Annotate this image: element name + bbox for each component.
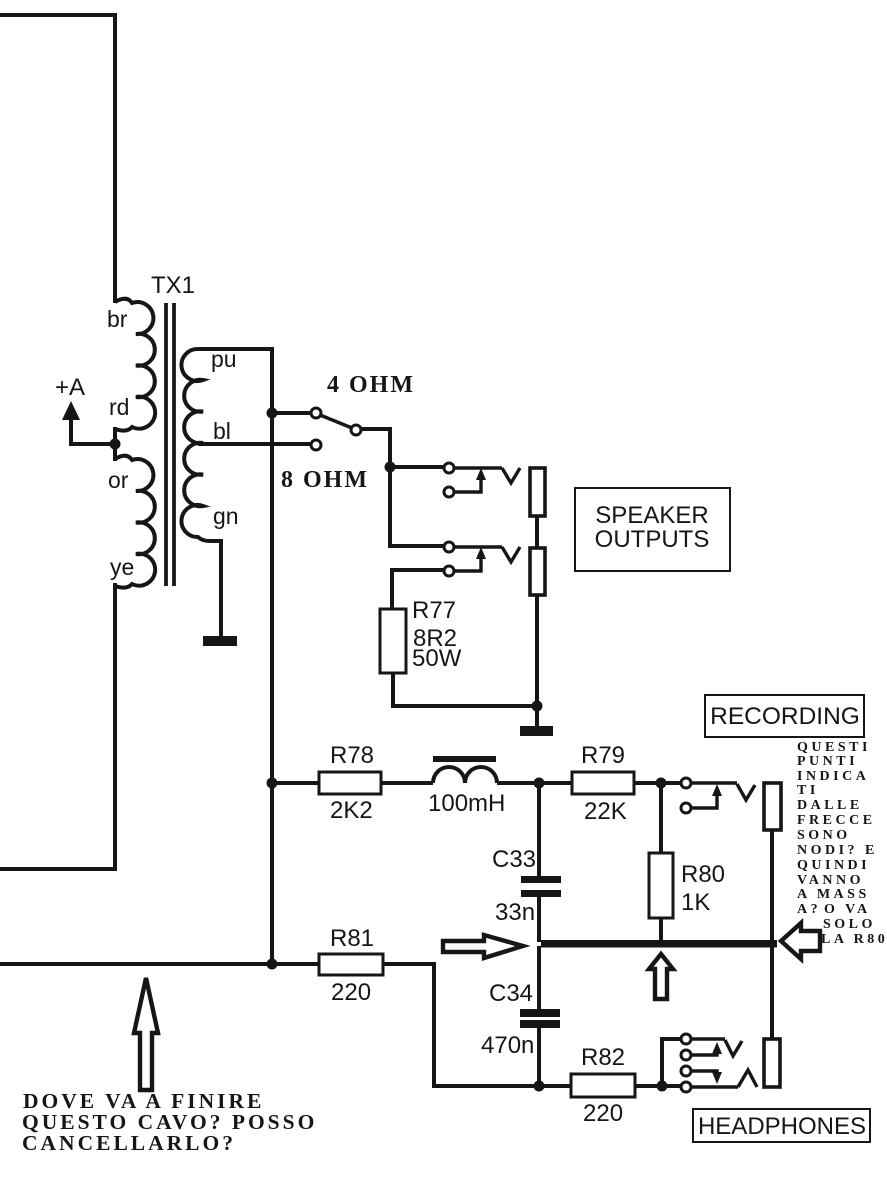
node centre tap bbox=[110, 439, 121, 450]
svg-text:C33: C33 bbox=[492, 846, 536, 873]
svg-text:gn: gn bbox=[213, 503, 239, 529]
svg-text:50W: 50W bbox=[412, 645, 462, 672]
svg-text:PUNTI: PUNTI bbox=[797, 754, 858, 769]
svg-text:CANCELLARLO?: CANCELLARLO? bbox=[22, 1131, 236, 1155]
jack J2 body bbox=[530, 548, 545, 595]
headphone contact1 spring V bbox=[725, 1040, 742, 1056]
capacitor C33 plate1 bbox=[521, 876, 561, 883]
wire to jack1 tip bbox=[390, 465, 444, 469]
wire C33 branch upper bbox=[537, 783, 541, 876]
recording jack tip contact bbox=[681, 778, 691, 788]
svg-text:TX1: TX1 bbox=[151, 272, 195, 299]
svg-text:br: br bbox=[107, 306, 128, 332]
wire recording tip bbox=[691, 781, 737, 784]
headphone contact2 arrowhead bbox=[712, 1042, 722, 1054]
svg-text:C34: C34 bbox=[489, 980, 533, 1007]
headphone jack contact 2 bbox=[681, 1050, 691, 1060]
jack J1 NC arrowhead bbox=[476, 468, 486, 480]
svg-text:bl: bl bbox=[213, 418, 231, 444]
wire top-left L from off-page to transformer primary top bbox=[0, 15, 115, 303]
wire R77 bottom to ground node bbox=[393, 673, 537, 706]
wire headphone contact4 bbox=[691, 1085, 738, 1088]
resistor R81 bbox=[319, 954, 383, 975]
svg-text:22K: 22K bbox=[584, 798, 627, 825]
svg-text:rd: rd bbox=[109, 394, 129, 420]
node R81 tap bbox=[267, 959, 278, 970]
capacitor C34 plate2 bbox=[520, 1020, 560, 1028]
thick node bus bar bbox=[541, 940, 777, 948]
jack J2 tip spring V bbox=[502, 547, 520, 562]
wire C34 branch from bus bar bbox=[537, 946, 541, 1009]
svg-text:470n: 470n bbox=[481, 1032, 534, 1059]
svg-text:FRECCE: FRECCE bbox=[797, 813, 876, 828]
ground transformer bbox=[203, 636, 237, 646]
svg-text:LA R80: LA R80 bbox=[821, 932, 887, 947]
wire long R81 feed from off-page left bbox=[0, 962, 319, 966]
arrow pointing up at R81 wire bbox=[134, 978, 158, 1090]
node C33 tap bbox=[534, 778, 545, 789]
switch contact 8 ohm bbox=[311, 440, 321, 450]
svg-text:A MASS: A MASS bbox=[797, 887, 870, 902]
headphone jack contact 1 bbox=[681, 1034, 691, 1044]
svg-text:ye: ye bbox=[110, 554, 134, 580]
recording NC arrowhead bbox=[712, 784, 722, 796]
wire C34 to bottom rail bbox=[537, 1028, 541, 1086]
resistor R82 bbox=[571, 1074, 635, 1097]
wire primary centre-tap segment bbox=[113, 427, 117, 461]
svg-text:+A: +A bbox=[55, 374, 85, 401]
wire recording jack to headphones jack bbox=[770, 830, 774, 1039]
svg-text:R78: R78 bbox=[330, 742, 374, 769]
svg-text:SPEAKER: SPEAKER bbox=[595, 502, 708, 529]
svg-text:33n: 33n bbox=[495, 899, 535, 926]
jack J1 tip contact bbox=[444, 463, 454, 473]
headphone jack contact 4 bbox=[681, 1082, 691, 1092]
svg-text:HEADPHONES: HEADPHONES bbox=[698, 1113, 866, 1140]
wire primary bottom lead to off-page left bbox=[0, 583, 115, 869]
svg-text:100mH: 100mH bbox=[428, 790, 505, 817]
wire R78 to L1 bbox=[381, 781, 433, 785]
capacitor C34 plate1 bbox=[520, 1009, 560, 1017]
svg-text:R81: R81 bbox=[330, 925, 374, 952]
wire between jack bodies bbox=[535, 516, 539, 548]
node R80 tap bbox=[656, 778, 667, 789]
svg-text:R82: R82 bbox=[581, 1044, 625, 1071]
switch contact 4 ohm bbox=[311, 408, 321, 418]
box SPEAKER OUTPUTS bbox=[575, 488, 730, 571]
svg-text:SONO: SONO bbox=[797, 828, 851, 843]
svg-text:DALLE: DALLE bbox=[797, 798, 863, 813]
node speaker ground bbox=[532, 701, 543, 712]
wire R81 to bottom rail bbox=[383, 964, 539, 1086]
node speaker jack1 tap bbox=[385, 462, 396, 473]
transformer T1 primary upper winding (br-rd) bbox=[115, 299, 155, 431]
jack J2 NC arrowhead bbox=[476, 547, 486, 559]
wire R79 to recording jack bbox=[634, 781, 681, 785]
box RECORDING bbox=[705, 695, 864, 737]
wire jack bodies to ground bbox=[535, 595, 539, 727]
node R78 tap bbox=[267, 778, 278, 789]
wire recording NC bbox=[691, 789, 717, 808]
wire jack J1 NC bbox=[454, 473, 481, 492]
transformer secondary winding (pu-bl-gn) bbox=[181, 349, 268, 637]
svg-text:2K2: 2K2 bbox=[330, 797, 373, 824]
switch common contact bbox=[351, 425, 361, 435]
svg-text:1K: 1K bbox=[681, 889, 710, 916]
svg-text:QUESTI: QUESTI bbox=[797, 740, 871, 755]
svg-text:4 OHM: 4 OHM bbox=[327, 372, 415, 398]
svg-text:R80: R80 bbox=[681, 861, 725, 888]
svg-text:TI: TI bbox=[797, 783, 819, 798]
node 4-ohm tap bbox=[267, 408, 278, 419]
node C34 bottom bbox=[534, 1081, 545, 1092]
jack J1 body bbox=[530, 468, 545, 516]
jack J1 tip spring V bbox=[502, 468, 520, 483]
svg-text:SOLO: SOLO bbox=[823, 917, 876, 932]
wire L1 to R79 bbox=[497, 781, 572, 785]
wire jack J1 tip bbox=[454, 466, 502, 469]
box HEADPHONES bbox=[693, 1109, 870, 1142]
svg-text:or: or bbox=[108, 467, 129, 493]
svg-text:INDICA: INDICA bbox=[797, 769, 869, 784]
node headphone tap bbox=[657, 1081, 668, 1092]
svg-text:R79: R79 bbox=[581, 742, 625, 769]
switch lever bbox=[320, 415, 352, 428]
jack J2 tip contact bbox=[444, 542, 454, 552]
headphone jack body bbox=[764, 1039, 780, 1087]
resistor R77 bbox=[380, 609, 406, 673]
wire R80 branch upper bbox=[659, 783, 663, 853]
wire bl lead bbox=[198, 442, 311, 446]
arrow pointing up at bus bar bbox=[649, 954, 673, 999]
svg-text:R77: R77 bbox=[412, 597, 456, 624]
svg-text:220: 220 bbox=[331, 979, 371, 1006]
svg-text:8 OHM: 8 OHM bbox=[281, 467, 369, 493]
wire pu lead down right side bus bbox=[198, 349, 272, 965]
+A arrow bbox=[62, 401, 80, 420]
transformer T1 primary lower winding (or-ye) bbox=[115, 456, 155, 588]
headphone contact3 arrowhead bbox=[712, 1072, 722, 1084]
arrow pointing right at bus bar bbox=[443, 935, 523, 958]
wire bus to R78 bbox=[272, 781, 319, 785]
jack J1 NC contact bbox=[444, 487, 454, 497]
wire headphone contact3 bbox=[691, 1071, 717, 1078]
headphone contact4 spring bbox=[738, 1070, 757, 1087]
recording tip spring V bbox=[737, 784, 755, 800]
wire headphone contact1 bbox=[691, 1037, 725, 1040]
svg-text:A?: A? bbox=[797, 902, 821, 917]
headphone jack contact 3 bbox=[681, 1066, 691, 1076]
ground speaker bbox=[520, 726, 553, 736]
recording jack NC contact bbox=[681, 803, 691, 813]
wire R80 to bus bar bbox=[659, 918, 663, 942]
transformer core bbox=[164, 303, 168, 586]
svg-text:QUINDI: QUINDI bbox=[797, 858, 870, 873]
wire headphone ring feed bbox=[662, 1039, 681, 1086]
resistor R79 bbox=[572, 772, 634, 794]
wire jack J2 NC bbox=[454, 552, 481, 571]
svg-text:NODI? E: NODI? E bbox=[797, 843, 878, 858]
inductor L1 core bar bbox=[433, 756, 496, 762]
wire headphone contact2 bbox=[691, 1048, 717, 1055]
wire +A to centre tap bbox=[71, 418, 115, 444]
svg-text:O VA: O VA bbox=[824, 902, 871, 917]
wire jack J2 tip bbox=[454, 545, 502, 548]
wire switch common to speaker jacks bbox=[361, 429, 444, 546]
capacitor C33 plate2 bbox=[521, 890, 561, 897]
arrow pointing left at bus bar bbox=[781, 923, 820, 959]
recording jack body bbox=[764, 783, 781, 830]
svg-text:220: 220 bbox=[583, 1100, 623, 1127]
inductor L1 100mH bbox=[433, 767, 497, 783]
jack J2 NC contact bbox=[444, 566, 454, 576]
resistor R78 bbox=[319, 772, 381, 794]
wire bottom rail to R82 bbox=[539, 1084, 571, 1088]
svg-text:RECORDING: RECORDING bbox=[710, 703, 860, 730]
resistor R80 bbox=[649, 853, 673, 918]
wire C33 to bus bar bbox=[537, 897, 541, 942]
wire R82 to headphone jack bbox=[635, 1084, 686, 1088]
wire 4-ohm stub bbox=[272, 411, 311, 415]
svg-text:VANNO: VANNO bbox=[797, 873, 864, 888]
svg-text:OUTPUTS: OUTPUTS bbox=[595, 526, 710, 553]
wire R77 top branch to jack J2 NC bbox=[392, 570, 444, 609]
